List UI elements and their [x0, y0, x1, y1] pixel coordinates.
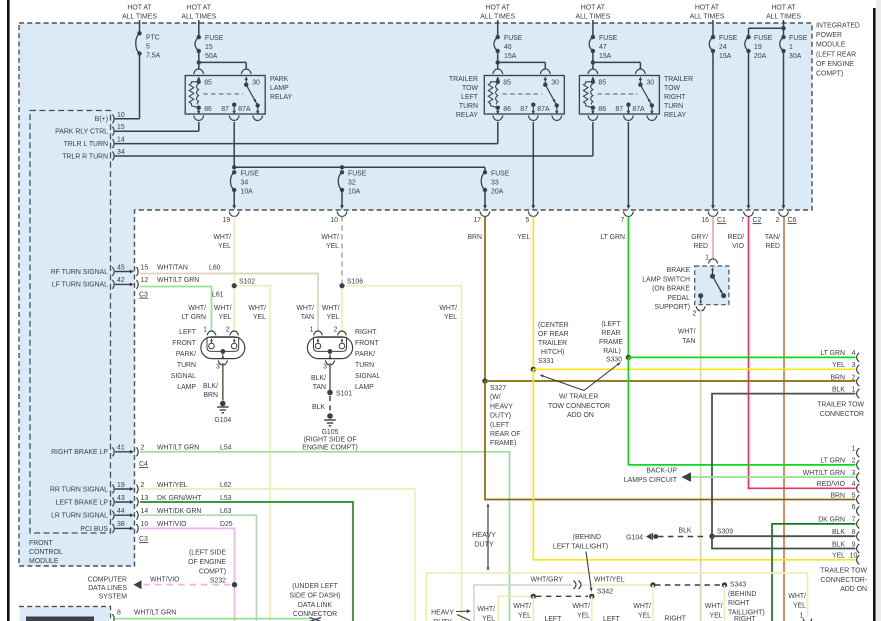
front control module inner dashed box	[30, 111, 111, 534]
svg-text:TRAILER: TRAILER	[538, 340, 567, 347]
svg-text:(CENTER: (CENTER	[538, 322, 569, 329]
svg-text:WHT/: WHT/	[572, 603, 590, 610]
svg-text:S106: S106	[347, 279, 363, 286]
svg-text:LEFT: LEFT	[461, 94, 479, 101]
svg-text:L61: L61	[212, 292, 224, 299]
wire L54 WHT/LT GRN right brake lamp feed	[140, 452, 510, 621]
svg-text:WHT/: WHT/	[321, 234, 339, 241]
svg-text:87: 87	[615, 106, 623, 113]
svg-text:PCI BUS: PCI BUS	[80, 526, 108, 533]
brake lamp switch box	[695, 266, 729, 305]
svg-text:15: 15	[205, 44, 213, 51]
svg-text:(UNDER LEFT: (UNDER LEFT	[292, 583, 338, 590]
svg-text:LEFT: LEFT	[603, 616, 621, 621]
svg-text:10A: 10A	[348, 189, 361, 196]
svg-text:RED: RED	[765, 243, 780, 250]
svg-text:C4: C4	[139, 461, 148, 468]
front control module column fill	[19, 210, 135, 566]
svg-text:BACK-UP: BACK-UP	[646, 468, 677, 475]
svg-text:HOT AT: HOT AT	[581, 5, 606, 12]
svg-text:FUSE: FUSE	[348, 171, 367, 178]
svg-text:20A: 20A	[491, 189, 504, 196]
svg-text:10A: 10A	[241, 189, 254, 196]
svg-text:OF ENGINE: OF ENGINE	[816, 61, 854, 68]
svg-text:2: 2	[776, 217, 780, 224]
svg-text:HEAVY: HEAVY	[490, 403, 513, 410]
svg-text:DUTY): DUTY)	[490, 413, 511, 420]
relay K3 TRAILER TOW RIGHT TURN RELAY	[579, 76, 659, 115]
svg-text:13: 13	[141, 495, 149, 502]
svg-text:47: 47	[599, 44, 607, 51]
svg-text:6: 6	[852, 504, 856, 511]
svg-text:RELAY: RELAY	[664, 112, 686, 119]
svg-text:7: 7	[621, 217, 625, 224]
svg-text:D25: D25	[220, 521, 233, 528]
svg-text:LAMP SWITCH: LAMP SWITCH	[642, 276, 690, 283]
svg-text:TURN: TURN	[177, 362, 196, 369]
svg-text:LT GRN: LT GRN	[181, 314, 206, 321]
svg-text:DK GRN: DK GRN	[818, 517, 845, 524]
svg-text:OF ENGINE: OF ENGINE	[188, 559, 226, 566]
wire fuse15 output to park relay pins 85/30	[197, 60, 201, 64]
svg-text:87A: 87A	[238, 106, 251, 113]
svg-text:86: 86	[204, 106, 212, 113]
svg-text:7: 7	[741, 217, 745, 224]
svg-text:34: 34	[117, 149, 125, 156]
svg-text:TURN: TURN	[664, 103, 683, 110]
svg-text:30: 30	[551, 80, 559, 87]
splice S343 behind right taillight	[722, 582, 727, 587]
wire DK GRN addon pin7 down to right rear lamps	[772, 524, 856, 621]
svg-text:DATA LINK: DATA LINK	[298, 602, 333, 609]
rear module connector bar	[26, 617, 94, 621]
wire L63 WHT/DK GRN lr turn feed	[140, 515, 257, 621]
svg-text:WHT/: WHT/	[439, 305, 457, 312]
svg-text:YEL: YEL	[793, 603, 806, 610]
svg-text:19: 19	[223, 217, 231, 224]
svg-text:BLK: BLK	[832, 541, 845, 548]
svg-text:15A: 15A	[504, 53, 517, 60]
svg-text:(W/: (W/	[490, 394, 501, 401]
svg-text:REAR OF: REAR OF	[490, 431, 521, 438]
wire WHT/GRY from below	[474, 585, 572, 621]
svg-text:19: 19	[117, 482, 125, 489]
svg-text:REAR: REAR	[601, 330, 620, 337]
wire fuse 1 down to exit C6	[783, 51, 785, 206]
svg-text:YEL: YEL	[832, 553, 845, 560]
brake lamp switch contacts	[711, 267, 714, 270]
svg-text:YEL: YEL	[482, 616, 495, 621]
fuse 24 15A	[709, 37, 713, 51]
svg-text:YEL: YEL	[326, 243, 339, 250]
off-page arrow computer data lines	[134, 580, 142, 589]
wire fuse 19 down to exit C2	[748, 51, 750, 206]
svg-text:43: 43	[117, 495, 125, 502]
svg-text:38: 38	[117, 521, 125, 528]
svg-text:RIGHT: RIGHT	[355, 329, 377, 336]
svg-text:POWER: POWER	[816, 32, 842, 39]
svg-text:DATA LINES: DATA LINES	[88, 585, 127, 592]
svg-text:HOT AT: HOT AT	[771, 5, 796, 12]
svg-text:WHT/: WHT/	[705, 603, 723, 610]
svg-text:C6: C6	[788, 217, 797, 224]
svg-text:87A: 87A	[632, 106, 645, 113]
relay K1 PARK LAMP RELAY	[185, 76, 265, 115]
svg-text:5: 5	[852, 492, 856, 499]
svg-text:FUSE: FUSE	[599, 35, 618, 42]
rear module dashed box (cut off)	[19, 607, 111, 621]
dashed wire to S343	[655, 584, 721, 586]
svg-text:LEFT BRAKE LP: LEFT BRAKE LP	[56, 499, 109, 506]
svg-text:S309: S309	[717, 529, 733, 536]
svg-text:1: 1	[203, 327, 207, 334]
svg-text:L60: L60	[209, 264, 221, 271]
svg-text:RED/: RED/	[728, 234, 745, 241]
svg-text:3: 3	[852, 362, 856, 369]
svg-text:19: 19	[754, 44, 762, 51]
svg-text:PEDAL: PEDAL	[667, 295, 690, 302]
svg-text:DK GRN/WHT: DK GRN/WHT	[157, 495, 202, 502]
svg-text:YEL: YEL	[638, 613, 651, 620]
svg-text:WHT/: WHT/	[248, 305, 266, 312]
wire BLK S309 to addon pin8	[712, 535, 856, 537]
fuse 33 20A	[484, 167, 486, 172]
svg-text:B(+): B(+)	[95, 116, 108, 123]
wire feed split to fuse 19	[749, 27, 784, 29]
svg-text:41: 41	[117, 445, 125, 452]
svg-text:PARK RLY CTRL: PARK RLY CTRL	[55, 129, 108, 136]
svg-text:FRONT: FRONT	[355, 340, 380, 347]
svg-text:87A: 87A	[537, 106, 550, 113]
svg-text:10: 10	[141, 521, 149, 528]
wire BLK/BRN left lamp to ground	[222, 363, 224, 401]
svg-text:24: 24	[719, 44, 727, 51]
svg-text:FUSE: FUSE	[205, 35, 224, 42]
svg-text:12: 12	[141, 277, 149, 284]
dashed option wire exit10 to S106	[341, 217, 343, 286]
svg-text:TOW CONNECTOR: TOW CONNECTOR	[548, 403, 610, 410]
svg-text:RR TURN SIGNAL: RR TURN SIGNAL	[50, 486, 108, 493]
svg-text:(LEFT: (LEFT	[601, 321, 621, 328]
svg-text:C3: C3	[139, 536, 148, 543]
wire right tow relay pin 87 down to exit 7	[627, 122, 629, 206]
svg-text:G105: G105	[322, 429, 339, 436]
wire rail to fuse 32 and fuse 33	[234, 166, 485, 168]
svg-text:2: 2	[852, 374, 856, 381]
fuse 47 15A	[589, 37, 593, 51]
svg-text:TRAILER TOW: TRAILER TOW	[820, 568, 867, 575]
svg-text:LEFT TAILLIGHT): LEFT TAILLIGHT)	[553, 543, 608, 550]
svg-text:WHT/: WHT/	[188, 305, 206, 312]
svg-text:TAN: TAN	[301, 314, 314, 321]
IPM exit pin 16 C1	[711, 205, 715, 209]
fuse 46 15A	[494, 37, 498, 51]
svg-text:FRAME: FRAME	[599, 339, 624, 346]
junction node fuse19/fuse1 feed	[781, 26, 785, 30]
fuse 19 20A	[745, 37, 749, 51]
svg-text:WHT/: WHT/	[678, 329, 696, 336]
dashed WHT/VIO wire to S232	[144, 584, 232, 586]
svg-text:L53: L53	[220, 495, 232, 502]
wire WHT/LT GRN back-up lamps circuit to addon pin3	[691, 476, 856, 478]
svg-text:L62: L62	[220, 482, 232, 489]
feed wire to fuse 46	[497, 20, 499, 38]
svg-text:2: 2	[693, 311, 697, 318]
svg-text:LEFT: LEFT	[545, 616, 563, 621]
splice S309	[709, 534, 714, 539]
svg-text:BLK: BLK	[312, 404, 325, 411]
svg-text:RF TURN SIGNAL: RF TURN SIGNAL	[51, 269, 108, 276]
svg-text:TOW: TOW	[664, 85, 680, 92]
svg-text:LT GRN: LT GRN	[600, 234, 625, 241]
svg-text:LAMP: LAMP	[177, 384, 196, 391]
svg-text:3: 3	[216, 364, 220, 371]
IPM exit pin 7 C2	[747, 205, 751, 209]
svg-text:HITCH): HITCH)	[541, 349, 564, 356]
svg-text:CONNECTOR-: CONNECTOR-	[820, 577, 867, 584]
svg-text:4: 4	[852, 350, 856, 357]
svg-text:SUPPORT): SUPPORT)	[655, 304, 690, 311]
wire TAN/RED exitC6 down to bottom	[783, 217, 785, 621]
svg-text:TRLR R TURN: TRLR R TURN	[62, 153, 108, 160]
svg-text:HOT AT: HOT AT	[127, 5, 152, 12]
svg-text:PARK/: PARK/	[355, 351, 375, 358]
svg-text:GRY/: GRY/	[691, 234, 708, 241]
svg-text:S327: S327	[490, 385, 506, 392]
svg-text:CONNECTOR: CONNECTOR	[293, 611, 337, 618]
annotation W/ TRAILER TOW CONNECTOR ADD ON	[542, 376, 585, 391]
svg-text:WHT/: WHT/	[633, 603, 651, 610]
wire fuse46 output to left tow relay pins 85/30	[496, 60, 500, 64]
feed wire to fuse 15	[198, 20, 200, 38]
svg-text:BRN: BRN	[830, 492, 845, 499]
svg-text:INTEGRATED: INTEGRATED	[816, 23, 860, 30]
svg-text:OF REAR: OF REAR	[538, 331, 569, 338]
svg-text:BLK/: BLK/	[311, 375, 326, 382]
svg-text:10: 10	[330, 217, 338, 224]
fuse 34 10A	[230, 172, 234, 190]
svg-text:TRAILER TOW: TRAILER TOW	[817, 402, 864, 409]
svg-text:ALL TIMES: ALL TIMES	[575, 14, 610, 21]
svg-text:30A: 30A	[789, 53, 802, 60]
svg-text:S330: S330	[606, 357, 622, 364]
svg-text:ENGINE COMPT): ENGINE COMPT)	[302, 445, 358, 452]
svg-text:FUSE: FUSE	[241, 171, 260, 178]
svg-text:TAN: TAN	[313, 384, 326, 391]
svg-text:3: 3	[852, 470, 856, 477]
svg-text:CONNECTOR: CONNECTOR	[820, 411, 864, 418]
svg-text:G104: G104	[626, 534, 643, 541]
svg-text:WHT/VIO: WHT/VIO	[150, 577, 180, 584]
svg-text:DUTY: DUTY	[474, 539, 494, 548]
svg-text:LAMPS CIRCUIT: LAMPS CIRCUIT	[624, 477, 678, 484]
svg-text:LF TURN SIGNAL: LF TURN SIGNAL	[52, 282, 108, 289]
svg-text:S232: S232	[210, 578, 226, 585]
wire left tow relay pin 87 down to exit 5	[532, 122, 534, 206]
wire B(+) pin10 to PTC output	[115, 118, 140, 120]
feed wire to fuse 24	[712, 20, 714, 38]
splice S342 behind left taillight	[498, 596, 530, 621]
svg-text:(ON BRAKE: (ON BRAKE	[652, 286, 690, 293]
svg-text:FRONT: FRONT	[172, 340, 197, 347]
splice S101	[327, 390, 333, 396]
svg-text:WHT/GRY: WHT/GRY	[531, 577, 564, 584]
svg-text:MODULE: MODULE	[29, 558, 59, 565]
svg-text:COMPT): COMPT)	[816, 71, 843, 78]
svg-text:(LEFT: (LEFT	[490, 422, 510, 429]
svg-text:YEL: YEL	[709, 613, 722, 620]
wire WHT/YEL after crossover to junction	[582, 584, 654, 586]
svg-text:S343: S343	[730, 582, 746, 589]
junction node at x=653	[650, 582, 655, 587]
IPM exit pin 19	[232, 205, 236, 209]
wire park relay pin 87 to fuse rail	[233, 122, 235, 167]
svg-text:YEL: YEL	[517, 234, 530, 241]
svg-text:WHT/VIO: WHT/VIO	[157, 521, 187, 528]
IPM / FCM combined dashed outline	[19, 23, 812, 566]
wire WHT/YEL heavy-duty run to right lamp pin1	[426, 573, 807, 621]
svg-text:CONTROL: CONTROL	[29, 549, 63, 556]
svg-text:WHT/LT GRN: WHT/LT GRN	[157, 277, 199, 284]
wire WHT/TAN brake switch pin2 down	[700, 309, 702, 621]
svg-text:RIGHT: RIGHT	[664, 94, 686, 101]
svg-text:FUSE: FUSE	[719, 35, 738, 42]
svg-text:YEL: YEL	[518, 613, 531, 620]
svg-text:85: 85	[503, 80, 511, 87]
svg-text:TOW: TOW	[462, 85, 478, 92]
svg-text:BLK/: BLK/	[203, 383, 218, 390]
ground G104 at left lamp	[220, 401, 226, 407]
svg-text:TURN: TURN	[355, 362, 374, 369]
svg-text:32: 32	[348, 180, 356, 187]
svg-text:30: 30	[252, 80, 260, 87]
svg-text:BLK: BLK	[832, 386, 845, 393]
svg-text:(LEFT REAR: (LEFT REAR	[816, 51, 856, 58]
IPM exit pin 10	[340, 205, 344, 209]
svg-text:2: 2	[226, 327, 230, 334]
svg-text:ALL TIMES: ALL TIMES	[181, 14, 216, 21]
svg-text:G104: G104	[214, 417, 231, 424]
svg-text:SYSTEM: SYSTEM	[99, 594, 128, 601]
svg-text:85: 85	[204, 80, 212, 87]
svg-text:(RIGHT SIDE OF: (RIGHT SIDE OF	[303, 437, 356, 444]
svg-text:RIGHT BRAKE LP: RIGHT BRAKE LP	[51, 449, 108, 456]
splice S330 left rear frame rail	[626, 355, 631, 360]
svg-text:RIGHT: RIGHT	[665, 616, 687, 621]
svg-text:WHT/: WHT/	[214, 305, 232, 312]
svg-text:30: 30	[646, 80, 654, 87]
relay K2 TRAILER TOW LEFT TURN RELAY	[484, 76, 564, 115]
svg-text:BLK: BLK	[678, 528, 691, 535]
svg-text:1: 1	[852, 386, 856, 393]
svg-text:10: 10	[117, 112, 125, 119]
svg-text:87: 87	[520, 106, 528, 113]
svg-text:C2: C2	[753, 217, 762, 224]
splice S232 left side of engine compt	[232, 582, 237, 587]
svg-text:ALL TIMES: ALL TIMES	[766, 14, 801, 21]
svg-text:COMPT): COMPT)	[199, 569, 226, 576]
wire LT GRN exit7 down to S330	[627, 217, 629, 358]
svg-text:14: 14	[141, 508, 149, 515]
wire D25 WHT/VIO pci bus to S232	[140, 528, 235, 621]
svg-text:2: 2	[852, 458, 856, 465]
svg-text:WHT/LT GRN: WHT/LT GRN	[157, 445, 199, 452]
svg-text:COMPUTER: COMPUTER	[88, 577, 127, 584]
svg-text:44: 44	[117, 508, 125, 515]
svg-text:S342: S342	[597, 589, 613, 596]
svg-text:1: 1	[310, 327, 314, 334]
svg-text:L54: L54	[220, 445, 232, 452]
svg-text:RED: RED	[693, 243, 708, 250]
wire GRY/RED exitC1 down to brake lamp switch	[712, 217, 714, 260]
svg-text:TURN: TURN	[459, 103, 478, 110]
wire L60 WHT/TAN to right lamp pin 1	[140, 274, 318, 332]
svg-text:YEL: YEL	[253, 314, 266, 321]
svg-text:S101: S101	[336, 391, 352, 398]
wire WHT/YEL exit19 to S102	[233, 217, 235, 286]
splice S102	[233, 286, 235, 331]
svg-text:YEL: YEL	[577, 613, 590, 620]
svg-text:RIGHT: RIGHT	[728, 600, 750, 607]
svg-text:15: 15	[141, 264, 149, 271]
svg-text:42: 42	[117, 277, 125, 284]
svg-text:20A: 20A	[754, 53, 767, 60]
svg-text:RELAY: RELAY	[456, 112, 478, 119]
fuse feed rail node S at fuse34	[232, 165, 236, 169]
svg-text:FUSE: FUSE	[504, 35, 523, 42]
svg-text:ALL TIMES: ALL TIMES	[690, 14, 725, 21]
fuse 1 30A	[780, 37, 784, 51]
svg-text:C3: C3	[139, 292, 148, 299]
svg-text:FRONT: FRONT	[29, 540, 54, 547]
svg-text:L63: L63	[220, 508, 232, 515]
svg-text:34: 34	[241, 180, 249, 187]
wire YEL exit5 down to S331	[532, 217, 534, 370]
svg-text:FUSE: FUSE	[789, 35, 808, 42]
svg-text:LT GRN: LT GRN	[820, 350, 845, 357]
svg-text:33: 33	[491, 180, 499, 187]
svg-text:WHT/YEL: WHT/YEL	[157, 482, 188, 489]
svg-text:HOT AT: HOT AT	[695, 5, 720, 12]
svg-text:BRN: BRN	[830, 374, 845, 381]
svg-text:WHT/: WHT/	[788, 593, 806, 600]
svg-text:86: 86	[598, 106, 606, 113]
svg-text:YEL: YEL	[218, 243, 231, 250]
svg-text:LAMP: LAMP	[355, 384, 374, 391]
svg-text:YEL: YEL	[218, 314, 231, 321]
lamp LEFT FRONT PARK/TURN SIGNAL LAMP	[207, 331, 216, 335]
svg-text:TRAILER: TRAILER	[664, 76, 693, 83]
dashed BLK wire S101 to G105	[329, 396, 331, 413]
wire feed to fuse 1	[783, 28, 785, 38]
wire BLK trailer tow pin1 ground loop	[712, 394, 856, 549]
svg-text:LEFT: LEFT	[179, 329, 197, 336]
svg-text:WHT/TAN: WHT/TAN	[157, 264, 188, 271]
svg-text:LR TURN SIGNAL: LR TURN SIGNAL	[51, 513, 108, 520]
svg-text:LAMP: LAMP	[270, 85, 289, 92]
svg-text:C1: C1	[717, 217, 726, 224]
svg-text:S331: S331	[538, 358, 554, 365]
wire BLK/TAN right lamp to S101	[329, 363, 331, 393]
wire RED/VIO corner to addon pin4	[749, 487, 856, 489]
svg-text:RIGHT: RIGHT	[734, 616, 756, 621]
svg-text:MODULE: MODULE	[816, 42, 846, 49]
splice crossover symbol	[574, 581, 582, 590]
svg-text:SIGNAL: SIGNAL	[355, 373, 380, 380]
svg-text:RAIL): RAIL)	[603, 348, 621, 355]
svg-text:BRAKE: BRAKE	[667, 267, 691, 274]
svg-text:85: 85	[598, 80, 606, 87]
